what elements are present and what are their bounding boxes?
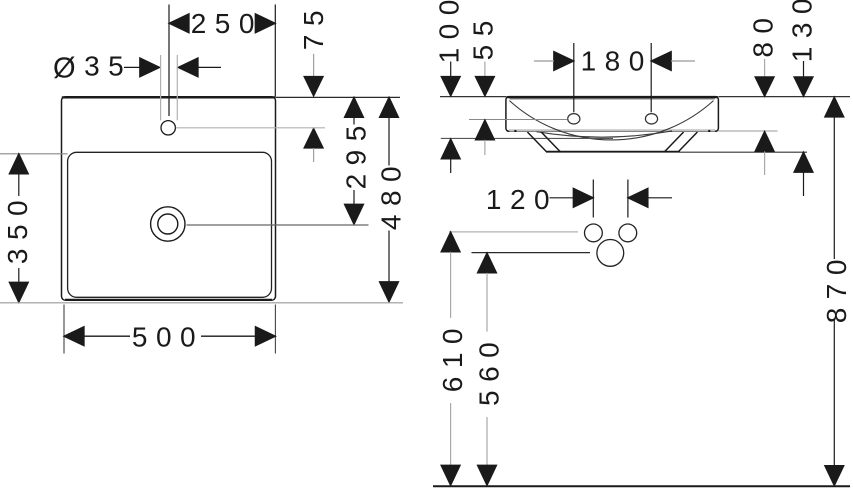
dim 180 left arrow xyxy=(554,52,574,71)
dim 350 top extension line xyxy=(0,153,68,155)
dim 130 label xyxy=(786,0,817,62)
centerline through faucet hole (250 left extension) xyxy=(168,5,170,117)
basin top edge extension to the right xyxy=(276,96,401,98)
svg-text:Ø35: Ø35 xyxy=(53,50,132,84)
dim 870 up arrow xyxy=(825,97,844,117)
dim 120 left-pointing arrow xyxy=(628,188,648,207)
dim 295 label xyxy=(341,117,372,189)
washbasin inner bowl outline xyxy=(68,152,272,297)
dim 100 label xyxy=(433,0,464,63)
rim bottom right tick xyxy=(708,130,710,132)
supply connection left circle xyxy=(585,224,603,242)
dim 870 label xyxy=(821,251,852,323)
pedestal base bottom xyxy=(546,151,680,153)
dim 480 down arrow xyxy=(380,282,399,302)
washbasin outer rim (top view) xyxy=(62,97,276,301)
svg-text:100: 100 xyxy=(433,0,464,63)
dim 120 right extension xyxy=(627,180,629,218)
rim bottom left tick xyxy=(514,130,516,132)
dim 480 label xyxy=(376,158,407,230)
Ø35 leader left xyxy=(124,66,141,68)
dim 610 label xyxy=(437,320,468,392)
floor line xyxy=(433,485,850,487)
dim 295 down arrow xyxy=(345,204,364,224)
dim 870 line bottom xyxy=(833,320,835,466)
svg-text:250: 250 xyxy=(191,8,263,39)
top extension line right of basin xyxy=(718,96,850,98)
dim 295 up arrow xyxy=(345,97,364,117)
dim 560 up arrow xyxy=(478,253,497,273)
dim 350 label xyxy=(2,192,33,264)
dim 180 right extension xyxy=(650,43,652,112)
pedestal right leg inner line xyxy=(664,132,683,152)
dim 80 label xyxy=(748,10,779,58)
dim 100 tail below xyxy=(450,159,452,173)
left fixing hole xyxy=(568,114,580,124)
svg-text:130: 130 xyxy=(786,0,817,62)
dim 870 line top xyxy=(833,117,835,259)
dim 610 tail bottom xyxy=(450,403,452,465)
dim 55 tail above xyxy=(484,62,486,77)
dim 75 tail above xyxy=(313,54,315,77)
Ø35 right-pointing arrow xyxy=(140,58,160,77)
dim 295 tail top xyxy=(353,117,355,125)
dim 130 tail above xyxy=(803,61,805,77)
svg-text:75: 75 xyxy=(298,2,329,50)
dim 350 up arrow xyxy=(9,154,28,174)
dim 55 tail below xyxy=(484,140,486,155)
basin rim bottom edge (light) xyxy=(509,129,715,131)
Ø35 extension line left (hole left edge) xyxy=(160,55,162,120)
dim 55 up arrow xyxy=(475,120,494,140)
dim 610 extension line xyxy=(449,231,578,233)
dim 500 left extension xyxy=(63,305,65,354)
dim 500 line left segment xyxy=(84,335,131,337)
dim 75 down arrow xyxy=(304,77,323,97)
waste drain circle (front view) xyxy=(597,240,624,267)
basin rim box (front view) xyxy=(506,97,719,132)
basin rim top edge thick xyxy=(506,96,718,98)
bowl back edge line + 100 extension xyxy=(441,137,613,139)
dim 180 tail left xyxy=(534,60,554,62)
base bottom extension right xyxy=(680,151,807,153)
dim 130 down arrow xyxy=(794,77,813,97)
dim 350 down arrow xyxy=(9,282,28,302)
dim 560 tail top xyxy=(486,273,488,332)
dim 350 tail top xyxy=(18,174,20,197)
svg-text:55: 55 xyxy=(468,12,499,60)
svg-text:120: 120 xyxy=(486,184,558,215)
faucet hole xyxy=(161,121,175,135)
dim 480 up arrow xyxy=(380,97,399,117)
dim 500 right arrow xyxy=(255,327,275,346)
dim 350 tail bottom xyxy=(18,268,20,283)
dim 75 up arrow xyxy=(304,128,323,148)
dim 250 left arrow xyxy=(169,14,189,33)
dim 560 tail bottom xyxy=(486,417,488,465)
Ø35 extension line right (hole right edge) xyxy=(176,55,178,120)
bottom extension line (left view) xyxy=(0,302,403,304)
dim 55 label xyxy=(468,12,499,60)
svg-text:350: 350 xyxy=(2,192,33,264)
dim 500 right extension xyxy=(274,305,276,354)
dim 180 left extension xyxy=(573,43,575,112)
dim 610 down arrow xyxy=(441,465,460,485)
svg-text:610: 610 xyxy=(437,320,468,392)
svg-text:870: 870 xyxy=(821,251,852,323)
svg-text:295: 295 xyxy=(341,117,372,189)
drain center leader xyxy=(187,224,369,226)
dim 480 tail top xyxy=(388,117,390,166)
drain outer circle xyxy=(151,207,185,241)
pedestal left leg inner line xyxy=(541,132,560,152)
basin rim inner top line xyxy=(510,98,715,100)
dim 75 label xyxy=(298,2,329,50)
dim 610 tail top xyxy=(450,252,452,318)
top extension line left of basin xyxy=(440,96,506,98)
Ø35 left-pointing arrow xyxy=(178,58,198,77)
dim 80 tail below xyxy=(764,151,766,175)
dim 295 tail bottom xyxy=(353,190,355,205)
dim 180 right arrow xyxy=(651,52,671,71)
dim 560 down arrow xyxy=(478,465,497,485)
dim 120 left extension xyxy=(592,180,594,218)
right fixing hole xyxy=(645,114,657,124)
dim 560 extension line xyxy=(472,252,591,254)
supply connection right circle xyxy=(619,224,637,242)
bowl front lip arc xyxy=(509,101,713,140)
dim 120 tail right xyxy=(648,197,672,199)
pedestal left leg outer line xyxy=(527,132,546,152)
dim 480 tail bottom xyxy=(388,231,390,283)
dim 80 tail above xyxy=(764,59,766,77)
dim 130 up arrow xyxy=(794,152,813,172)
fixing hole leader line xyxy=(469,119,568,121)
washbasin outer rim bottom edge thick xyxy=(65,299,272,301)
dim 180 tail right xyxy=(671,60,695,62)
dim 610 up arrow xyxy=(441,232,460,252)
dim 80 up arrow xyxy=(755,131,774,151)
dim 500 line right segment xyxy=(201,335,256,337)
svg-text:80: 80 xyxy=(748,10,779,58)
dim 120 leader left xyxy=(550,197,574,199)
pedestal right leg outer line xyxy=(678,132,697,152)
under-bowl arc xyxy=(537,131,673,137)
Ø35 tail right xyxy=(198,66,221,68)
rim bottom extension right (light) xyxy=(718,130,777,132)
svg-text:180: 180 xyxy=(581,46,653,77)
svg-text:480: 480 xyxy=(376,158,407,230)
dim 55 down arrow xyxy=(475,77,494,97)
dim 100 tail above xyxy=(450,62,452,77)
dim 130 tail below xyxy=(803,172,805,196)
dim 500 left arrow xyxy=(64,327,84,346)
faucet hole center leader xyxy=(176,127,325,129)
dim 75 tail below xyxy=(313,148,315,162)
svg-text:500: 500 xyxy=(132,321,204,352)
svg-text:560: 560 xyxy=(474,334,505,406)
dim 870 down arrow xyxy=(825,466,844,486)
250 right extension line xyxy=(274,5,276,97)
dim 120 right-pointing arrow xyxy=(573,188,593,207)
dim 560 label xyxy=(474,334,505,406)
washbasin outer rim top edge thick xyxy=(62,96,275,98)
dim 100 up arrow xyxy=(441,139,460,159)
dim 100 down arrow xyxy=(441,77,460,97)
drain inner circle xyxy=(158,214,178,234)
dim 250 right arrow xyxy=(255,14,275,33)
dim 80 down arrow xyxy=(755,77,774,97)
